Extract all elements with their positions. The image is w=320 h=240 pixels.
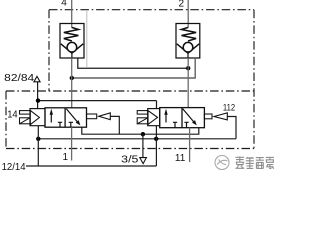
- svg-text:1: 1: [62, 152, 68, 163]
- valve V2 pilot box: [148, 109, 160, 126]
- node on line 4: [70, 76, 74, 80]
- valve V2 blocked port T right: [184, 122, 188, 127]
- valve V1 blocked port T left: [58, 122, 62, 127]
- check valve C1 poppet: [67, 42, 77, 52]
- svg-text:4: 4: [61, 0, 67, 9]
- port 82/84 triangle: [34, 76, 40, 81]
- check valve C1 seat: [61, 44, 83, 53]
- enclosure upper-left edge: [48, 10, 50, 91]
- wire 112 pilot line: [227, 117, 236, 139]
- wire pilot branch line S: [38, 100, 157, 102]
- valve V2 pilot return stub: [204, 114, 212, 119]
- wire C1 outlet stub: [71, 53, 73, 58]
- wire port 2: [187, 0, 189, 28]
- check valve C1 box: [60, 24, 84, 59]
- valve V2 blocked port T left: [173, 122, 177, 127]
- wire V2 pilot riser upper: [156, 101, 158, 109]
- valve V2 solenoid diagonal: [137, 118, 148, 124]
- valve V2 flow arrow: [165, 114, 167, 123]
- valve V2 body: [160, 108, 205, 128]
- check valve C2 box: [176, 24, 200, 59]
- check valve C1 spring: [64, 27, 79, 41]
- wire port 4: [71, 0, 73, 28]
- enclosure divider: [6, 90, 254, 92]
- valve V2 body divider: [181, 108, 183, 128]
- svg-text:11: 11: [175, 153, 186, 164]
- valve V2 pilot solenoid upper rect: [137, 111, 148, 115]
- wire line B (node 4 to C2 bypass): [72, 58, 195, 78]
- valve V2 pilot solenoid lower rect: [137, 118, 148, 124]
- wire 12/14 line: [26, 165, 156, 167]
- valve V2 pilot triangle: [148, 111, 158, 125]
- wire exhaust line Q: [82, 127, 199, 134]
- wire V2 pilot riser lower: [155, 126, 157, 166]
- port 3/5 triangle: [140, 158, 147, 164]
- valve V1 pilot triangle: [30, 110, 39, 124]
- node line R left: [36, 137, 40, 141]
- node V2 pilot on line R: [154, 137, 158, 141]
- valve V1 crossed arrow: [66, 109, 78, 123]
- valve V2 crossed arrow: [183, 109, 195, 123]
- node pilot branch: [36, 98, 40, 102]
- svg-text:2: 2: [178, 0, 184, 10]
- wire 3/5 drop: [142, 134, 144, 157]
- valve V1 pilot box: [30, 109, 45, 126]
- enclosure top edge: [49, 9, 254, 11]
- node 3/5 branch: [141, 132, 145, 136]
- valve V1 body divider: [64, 108, 66, 127]
- watermark text: [236, 157, 275, 169]
- valve V1 pilot solenoid upper rect: [20, 111, 31, 115]
- wire C2 outlet stub: [187, 53, 189, 58]
- valve V1 flow arrow: [50, 114, 52, 123]
- wire faint inner boundary: [86, 11, 88, 67]
- valve V1 return triangle: [99, 113, 111, 120]
- svg-text:82/84: 82/84: [4, 73, 35, 84]
- valve V2 return triangle: [214, 113, 227, 120]
- enclosure lower-left edge: [5, 91, 7, 149]
- svg-text:14: 14: [7, 109, 18, 120]
- check valve C2 poppet: [183, 42, 193, 52]
- node on line 2: [186, 66, 190, 70]
- wire port 1: [71, 127, 73, 160]
- watermark logo: [215, 156, 229, 170]
- wire 82/84 riser: [37, 82, 39, 109]
- svg-text:12/14: 12/14: [2, 162, 26, 173]
- enclosure bottom edge: [6, 148, 254, 150]
- valve V1 solenoid diagonal: [20, 118, 31, 124]
- valve V1 pilot return stub: [87, 114, 97, 119]
- valve V1 blocked port T right: [69, 122, 73, 127]
- wire line A (C1 bypass to node 2): [78, 58, 188, 68]
- svg-text:3/5: 3/5: [121, 154, 139, 165]
- wire port 4 drop to valve V1: [71, 58, 73, 108]
- valve V1 pilot solenoid lower rect: [20, 118, 31, 124]
- svg-text:112: 112: [223, 102, 235, 112]
- enclosure right edge: [253, 10, 255, 149]
- wire V1 pilot riser lower: [37, 126, 39, 166]
- check valve C2 spring: [182, 27, 197, 41]
- check valve C2 seat: [177, 44, 199, 53]
- wire V1 return branch: [110, 116, 119, 134]
- wire port 11: [189, 128, 191, 162]
- valve V1 body: [45, 108, 87, 127]
- wire pilot line R: [38, 138, 236, 140]
- wire port 2 drop to valve V2: [187, 58, 189, 108]
